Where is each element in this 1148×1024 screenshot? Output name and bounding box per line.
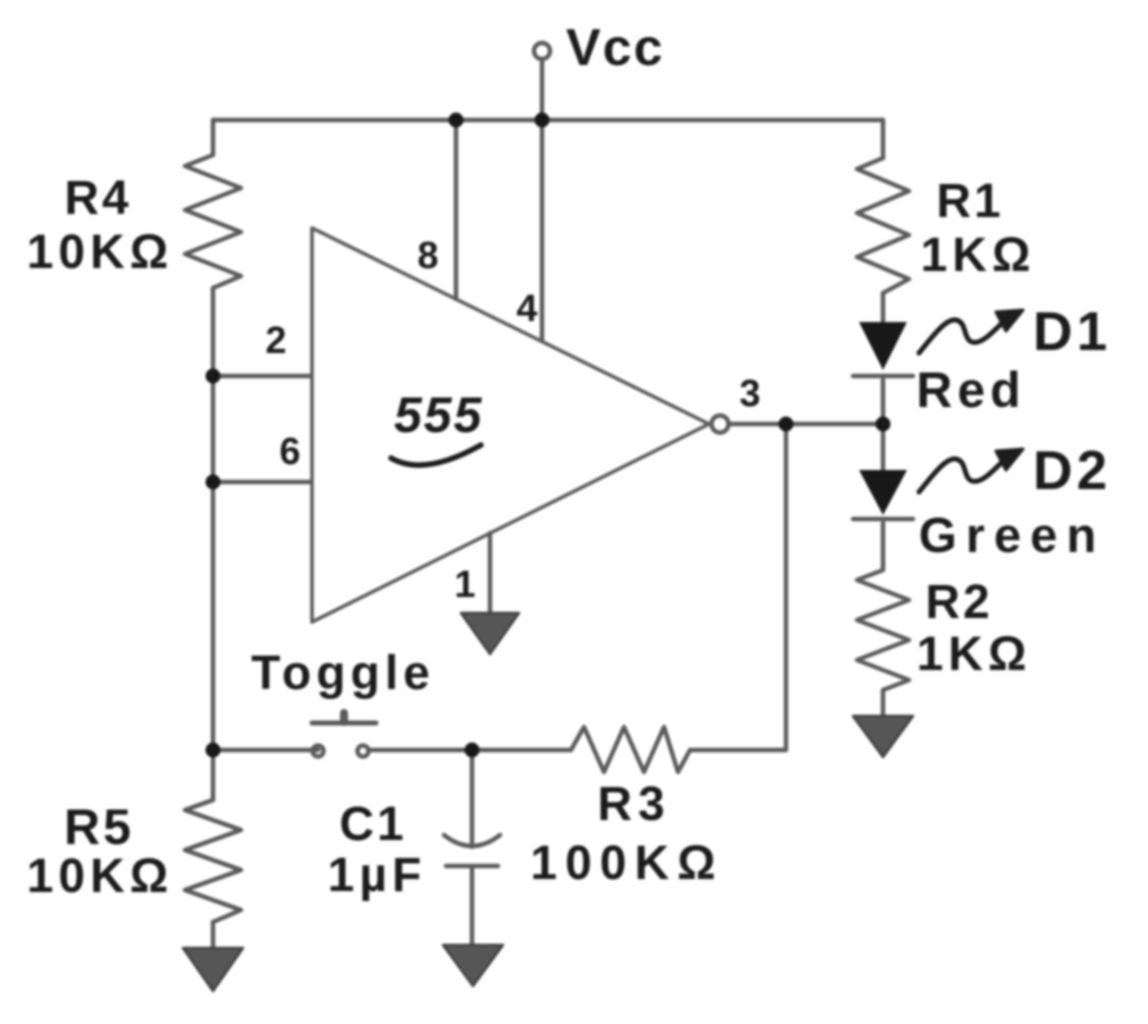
svg-text:8: 8 xyxy=(417,235,438,277)
output circle pin3 xyxy=(712,416,729,433)
svg-text:2: 2 xyxy=(265,320,286,362)
ground C1 arrow xyxy=(443,945,503,986)
wire left rail upper xyxy=(211,120,215,155)
svg-text:D2: D2 xyxy=(1033,439,1111,501)
LED D1 cathode bar xyxy=(853,374,913,378)
terminal Vcc circle xyxy=(534,43,550,59)
resistor R1 xyxy=(857,158,909,293)
svg-text:3: 3 xyxy=(739,373,760,415)
svg-text:D1: D1 xyxy=(1033,300,1111,362)
capacitor C1 xyxy=(444,835,500,846)
svg-text:6: 6 xyxy=(279,431,300,473)
svg-text:Vcc: Vcc xyxy=(566,19,665,77)
svg-text:Red: Red xyxy=(916,362,1025,418)
ground pin1 arrow xyxy=(461,613,519,654)
wire bottom rail left xyxy=(213,748,318,752)
svg-text:R2: R2 xyxy=(925,576,992,629)
LED D1 body xyxy=(859,322,907,370)
LED D2 light squiggle arrow xyxy=(919,459,1004,492)
switch Toggle pushbutton xyxy=(312,721,376,726)
resistor R3 xyxy=(571,727,690,772)
wire C1 bottom xyxy=(470,866,474,948)
wire bottom rail mid xyxy=(370,748,571,752)
node dot top Vcc xyxy=(535,113,550,128)
LED D1 light squiggle arrow xyxy=(919,320,1004,353)
svg-text:4: 4 xyxy=(516,288,537,330)
wire output to LED chain xyxy=(729,422,883,426)
svg-text:100KΩ: 100KΩ xyxy=(530,837,723,890)
wire feedback vertical xyxy=(784,424,788,750)
svg-text:1: 1 xyxy=(454,564,475,606)
svg-text:R1: R1 xyxy=(936,175,1003,228)
svg-text:Toggle: Toggle xyxy=(251,647,435,700)
svg-text:R5: R5 xyxy=(64,799,134,855)
svg-text:10KΩ: 10KΩ xyxy=(27,226,174,279)
wire R5 top xyxy=(211,750,215,800)
wire R2 to ground xyxy=(881,690,885,716)
svg-text:555: 555 xyxy=(394,387,483,443)
wire Vcc drop to pin4 xyxy=(540,59,544,341)
wire R1 to D1 xyxy=(881,293,885,322)
resistor R4 xyxy=(185,155,241,288)
wire D2 to R2 xyxy=(881,523,885,570)
ground R2 arrow xyxy=(853,716,913,757)
svg-text:10KΩ: 10KΩ xyxy=(27,850,174,903)
wire bottom rail right xyxy=(690,748,786,752)
node dot output branch xyxy=(779,417,794,432)
wire pin6 stub xyxy=(213,480,310,484)
node dot C1 xyxy=(465,743,480,758)
svg-text:1KΩ: 1KΩ xyxy=(921,229,1036,282)
wire node to D2 xyxy=(881,424,885,470)
wire top rail xyxy=(213,118,883,122)
resistor R5 xyxy=(185,800,241,922)
svg-text:Green: Green xyxy=(919,509,1106,563)
svg-text:C1: C1 xyxy=(339,798,406,851)
node dot LED mid xyxy=(876,417,891,432)
svg-text:1µF: 1µF xyxy=(328,849,427,902)
svg-text:1KΩ: 1KΩ xyxy=(917,628,1032,681)
wire pin8 drop xyxy=(454,120,458,299)
node dot pin6 xyxy=(206,475,221,490)
node dot bottom-left xyxy=(206,743,221,758)
ground R5 arrow xyxy=(183,948,243,991)
op-amp U1 555 triangle xyxy=(312,228,709,622)
node dot pin2 xyxy=(206,369,221,384)
node dot top pin8 xyxy=(449,113,464,128)
svg-text:R4: R4 xyxy=(64,172,131,225)
wire D1 to node xyxy=(881,380,885,424)
wire R1 top xyxy=(881,120,885,158)
wire pin1 down xyxy=(488,533,492,614)
label 555 xyxy=(391,387,483,465)
LED D2 body xyxy=(859,470,907,515)
wire R5 bottom xyxy=(211,922,215,950)
wire left rail lower xyxy=(211,288,215,750)
svg-text:R3: R3 xyxy=(597,778,670,831)
wire C1 top xyxy=(470,750,474,847)
wire pin2 stub xyxy=(213,374,310,378)
LED D2 cathode bar xyxy=(853,517,913,521)
resistor R2 xyxy=(857,570,909,690)
